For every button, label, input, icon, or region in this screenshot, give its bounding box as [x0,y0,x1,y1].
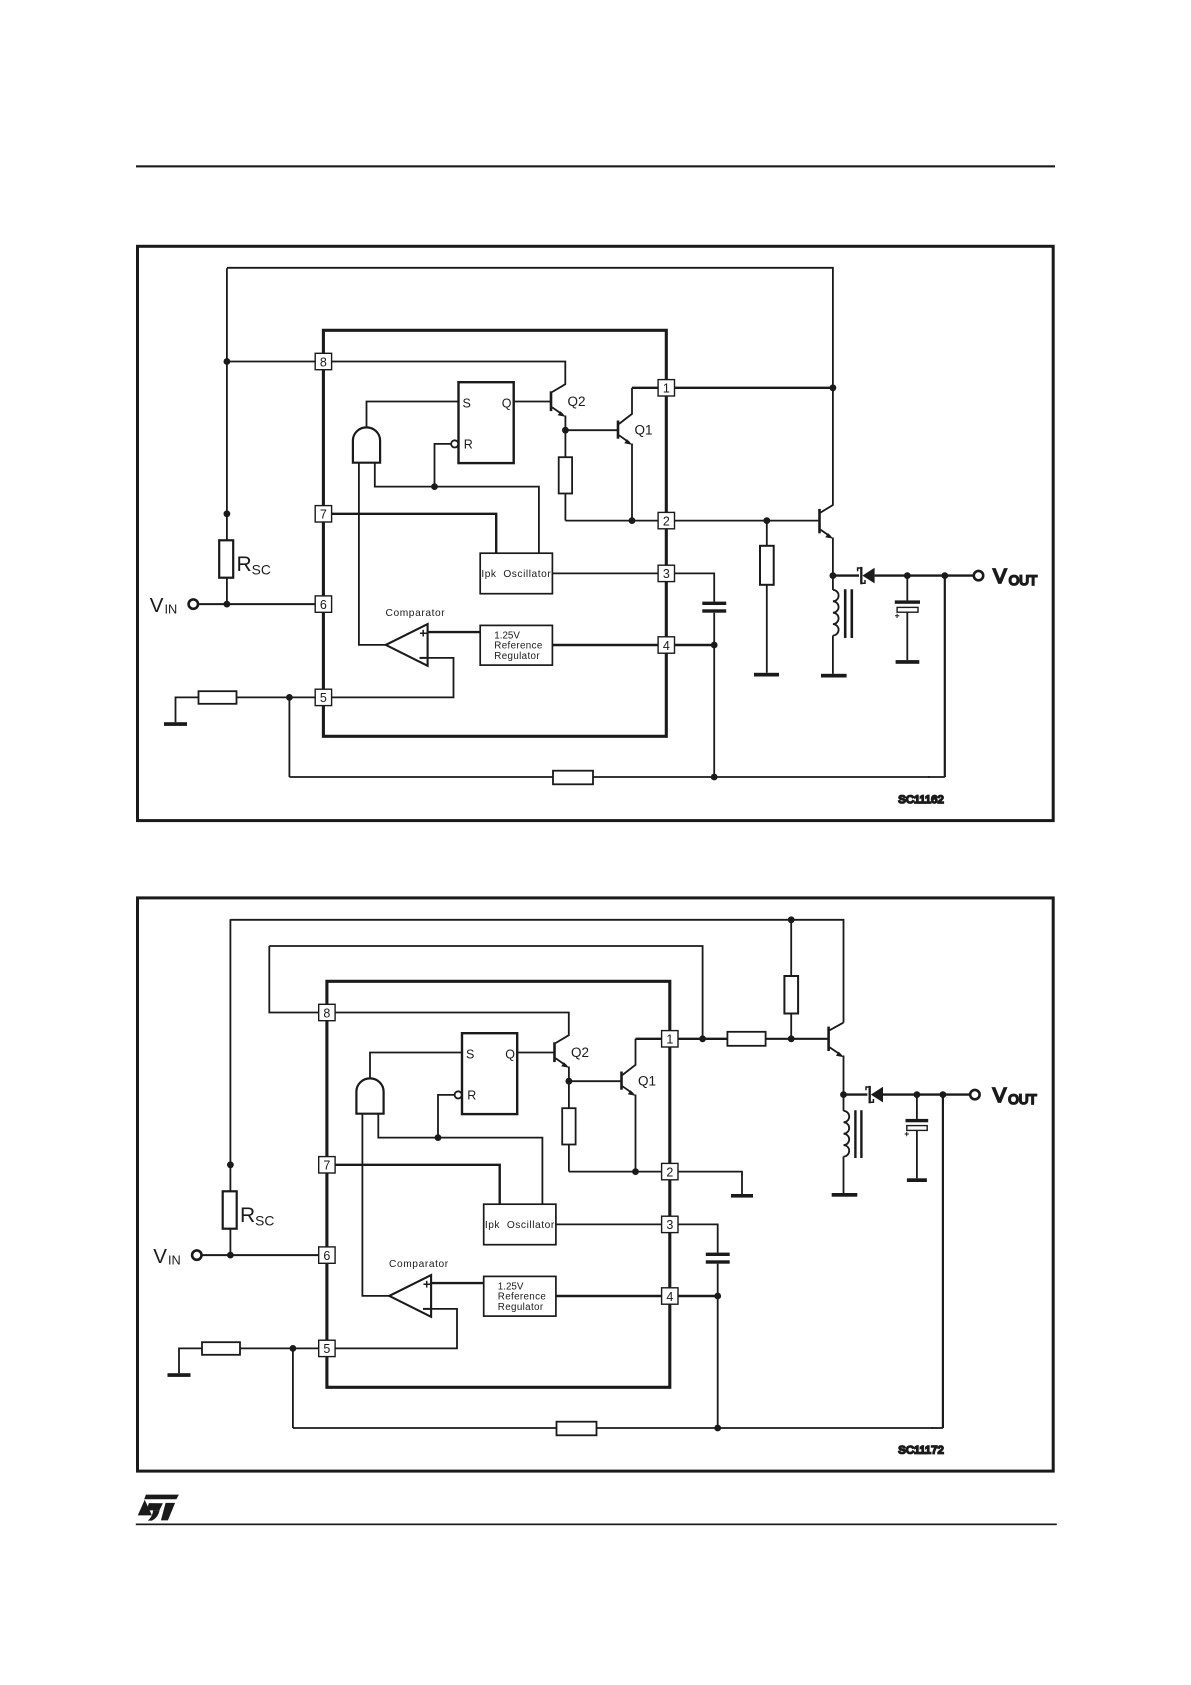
top horizontal rule [136,165,1055,167]
junction dot pullup resistor tap [788,916,795,923]
junction dot output capacitor tap [904,572,911,579]
wire: inductor L2 to ground [843,1157,845,1194]
svg-text:SC11162: SC11162 [898,794,943,806]
transistor Q3 emitter [820,530,830,537]
wire: node to diode D2 [844,1093,868,1095]
wire: resistor R3 top stub [766,521,768,546]
wire: resistor R4 top stub [790,920,792,976]
inductor L1 core bars [845,589,852,638]
resistor R5 base drive [727,1032,765,1046]
junction dot Q3 collector node [830,384,837,391]
transistor Q4 base bar [827,1027,830,1051]
arrowhead Q4 emitter [836,1052,844,1058]
transistor Q3 base bar [818,509,821,533]
ground G3 [821,674,847,678]
wire: base resistor to Q4 base [766,1038,828,1040]
wire: pin 1 to Q3 collector node [675,387,833,389]
junction dot pin 8 tap [224,358,231,365]
wire: pin 8 to left rail [227,361,315,363]
diode D2 anode triangle [871,1087,883,1103]
wire: inductor top stub fig2 [843,1095,845,1111]
wire: feedback rail to vertical [928,776,945,778]
wire: pin 1 to base resistor [678,1038,727,1040]
wire: output capacitor to ground [906,612,908,660]
wire: output capacitor top stub [906,576,908,601]
wire: output capacitor top stub fig2 [916,1095,918,1119]
wire: pin 2 to Q3 base [675,520,819,522]
junction dot output capacitor tap fig2 [914,1091,921,1098]
capacitor CO2 bottom plate [907,1126,927,1131]
wire: inductor node to diode [833,574,859,576]
bottom horizontal rule [136,1524,1057,1526]
label + polarity fig2 [905,1132,909,1136]
wire: fig2 second rail pin8 to pin1 [269,946,702,1039]
diode D2 cathode hooks [866,1087,873,1102]
terminal VOUT fig2 [970,1090,979,1099]
ground G2 [754,673,779,677]
wire: feedback from VOUT down fig2 [942,1095,944,1428]
diode D1 anode triangle [862,568,874,584]
wire: feedback rail to vertical fig2 [932,1427,943,1429]
arrowhead Q3 emitter [825,533,833,539]
diode D1 cathode hooks [858,568,865,583]
inductor L2 winding [844,1111,850,1157]
terminal VOUT [974,571,983,580]
junction dot feedback tap [941,572,948,579]
wire: fig1 top supply rail [227,268,833,388]
transistor Q4 emitter [830,1047,841,1055]
transistor Q4 collector [830,1023,844,1031]
wire: output capacitor CO2 to ground [916,1130,918,1178]
figure 2 frame [138,898,1054,1471]
wire: fig2 top supply rail [230,920,843,1023]
svg-text:SC11172: SC11172 [898,1445,943,1457]
junction dot feedback tap fig2 [940,1091,947,1098]
wire: inductor top stub [832,576,834,590]
resistor R4 pull-up [784,976,798,1014]
resistor R3 [760,546,774,585]
label + polarity [895,614,899,618]
ground G4 [896,660,920,664]
wire: second rail down to pin 8 [269,946,318,1013]
wire: diode to VOUT terminal [875,574,974,576]
diode D2 cathode bar [869,1086,871,1103]
junction dot inductor node [830,572,837,579]
diode D1 cathode bar [860,567,862,584]
ground G5 [832,1193,858,1197]
wire: diode to VOUT terminal fig2 [883,1093,970,1095]
wire: Q3 emitter to output node [832,538,834,576]
junction dot base resistor tap [763,517,770,524]
transistor Q3 collector [820,388,833,513]
wire: Q4 emitter to node [843,1056,845,1095]
wire: inductor to ground [832,636,834,674]
junction dot pin1 rail left [699,1035,706,1042]
inductor L1 winding [833,590,839,636]
figure 1 frame [138,246,1054,820]
wire: resistor R4 bottom stub [790,1014,792,1039]
capacitor CO2 top plate [906,1119,929,1122]
ST logo [138,1495,179,1521]
capacitor CO top plate [895,600,920,603]
ground G7 [731,1194,753,1198]
capacitor CO bottom plate [897,607,918,612]
junction dot inductor node fig2 [840,1091,847,1098]
junction dot pin1 rail right [788,1035,795,1042]
wire: pin 2 to ground [678,1172,742,1194]
ground G6 [907,1178,927,1182]
wire: resistor R3 to ground [766,585,768,673]
wire: feedback from VOUT down [944,576,946,777]
inductor L2 core bars [855,1110,861,1158]
